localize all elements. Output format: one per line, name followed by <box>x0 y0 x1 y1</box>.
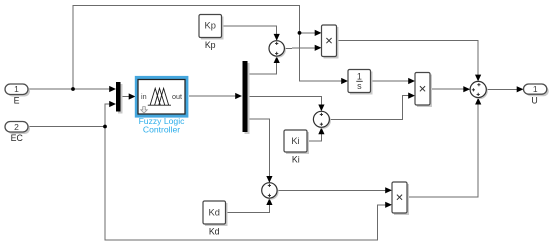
svg-text:Kd: Kd <box>209 207 220 217</box>
svg-text:Ki: Ki <box>291 136 299 146</box>
svg-text:Kp: Kp <box>205 21 216 31</box>
svg-text:Controller: Controller <box>143 124 180 134</box>
svg-text:out: out <box>172 92 182 101</box>
svg-text:2: 2 <box>14 122 19 132</box>
svg-text:1: 1 <box>357 72 362 82</box>
svg-text:Kp: Kp <box>205 40 216 50</box>
svg-text:EC: EC <box>11 133 24 143</box>
svg-text:Ki: Ki <box>292 155 300 165</box>
svg-text:1: 1 <box>14 84 19 94</box>
svg-text:U: U <box>531 96 537 106</box>
svg-text:1: 1 <box>533 84 538 94</box>
svg-text:E: E <box>14 96 20 106</box>
svg-text:s: s <box>357 81 362 91</box>
svg-text:Kd: Kd <box>209 227 220 237</box>
svg-text:in: in <box>141 92 147 101</box>
